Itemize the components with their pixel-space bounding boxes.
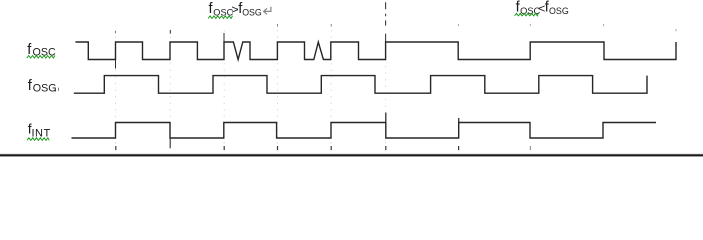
line break mark: [264, 7, 271, 15]
svg-text:OSG: OSG: [242, 8, 262, 18]
faint dashed guide lines: [115, 30, 117, 145]
fINT edge overshoots: [385, 113, 387, 124]
waveform fOSG: [74, 76, 647, 94]
waveform fOSC: [75, 42, 676, 60]
waveform fINT: [72, 123, 657, 139]
bottom tick dashes: [115, 146, 117, 150]
svg-text:OSG: OSG: [549, 6, 569, 16]
dash fragments above fOSC: [115, 31, 117, 33]
dashed region separator: [385, 2, 387, 42]
svg-text:OSG: OSG: [33, 82, 57, 94]
bottom rule: [0, 153, 703, 156]
